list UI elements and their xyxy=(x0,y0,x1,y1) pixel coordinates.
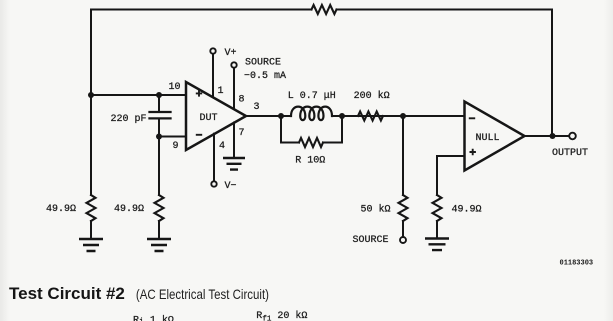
wire right vertical drop to output node xyxy=(551,10,553,137)
terminal V- xyxy=(211,181,216,186)
resistor RF (feedback, top rail) xyxy=(312,5,337,14)
svg-text:4: 4 xyxy=(219,141,225,152)
ground (left, under R1) xyxy=(79,239,103,251)
svg-text:01183303: 01183303 xyxy=(560,260,594,268)
wire R6 to ground xyxy=(436,221,438,238)
wire pin 7 to ground xyxy=(233,123,235,158)
terminal V+ xyxy=(210,48,215,53)
terminal OUTPUT xyxy=(569,133,576,140)
svg-text:49.9Ω: 49.9Ω xyxy=(452,205,482,216)
svg-text:DUT: DUT xyxy=(200,113,218,124)
svg-text:V+: V+ xyxy=(225,48,237,59)
wire pin 1 to V+ terminal xyxy=(212,54,214,98)
resistor R1 49.9 ohm (left) xyxy=(87,195,96,221)
wire 50k tap down xyxy=(402,116,404,195)
label DUT - symbol xyxy=(196,134,202,136)
wire L1 right to node xyxy=(332,115,465,117)
svg-text:49.9Ω: 49.9Ω xyxy=(114,204,144,215)
terminal SOURCE (bottom) xyxy=(400,237,406,243)
svg-text:−0.5 mA: −0.5 mA xyxy=(244,71,286,82)
svg-text:OUTPUT: OUTPUT xyxy=(552,148,588,159)
svg-text:V−: V− xyxy=(225,181,237,192)
resistor R3 10 ohm xyxy=(299,138,323,147)
resistor R6 49.9 ohm (right) xyxy=(433,195,442,221)
svg-text:L 0.7 μH: L 0.7 μH xyxy=(288,91,336,102)
svg-text:(AC Electrical Test Circuit): (AC Electrical Test Circuit) xyxy=(136,286,269,302)
node junction dot (+ wire / left drop) xyxy=(88,92,94,98)
wire DUT output pin 3 xyxy=(246,115,291,117)
svg-text:200 kΩ: 200 kΩ xyxy=(354,90,390,102)
svg-text:3: 3 xyxy=(254,102,260,113)
op-amp U1 DUT triangle xyxy=(186,82,246,150)
label NULL + symbol xyxy=(470,149,476,155)
wire R10 parallel branch left xyxy=(281,116,299,143)
capacitor C1 220 pF plates xyxy=(150,112,171,118)
svg-text:Test Circuit #2: Test Circuit #2 xyxy=(9,284,125,303)
ground (DUT pin 7) xyxy=(223,158,245,170)
svg-text:10: 10 xyxy=(169,82,181,93)
wire pin 4 to V- terminal xyxy=(213,134,215,182)
svg-text:8: 8 xyxy=(239,95,245,106)
wire NULL output xyxy=(525,135,570,137)
wire pin 8 to SOURCE terminal xyxy=(233,68,235,110)
terminal SOURCE (top) xyxy=(231,62,236,67)
svg-text:7: 7 xyxy=(239,128,245,139)
resistor R5 50 kohm xyxy=(399,195,408,221)
svg-text:R 10Ω: R 10Ω xyxy=(295,156,325,167)
inductor L1 0.7 uH xyxy=(291,107,332,121)
node junction dot (L right) xyxy=(339,113,345,119)
svg-text:SOURCE: SOURCE xyxy=(245,58,281,69)
node junction dot (50k tap) xyxy=(400,113,406,119)
svg-text:49.9Ω: 49.9Ω xyxy=(46,204,76,215)
ground (under R6) xyxy=(425,239,449,251)
wire inverting input (-) horizontal xyxy=(159,136,186,138)
svg-text:50 kΩ: 50 kΩ xyxy=(361,204,391,216)
node junction dot (cap bottom tee) xyxy=(156,134,162,140)
op-amp U2 NULL triangle xyxy=(465,102,525,171)
right page edge shade xyxy=(604,0,613,321)
ground (under R2) xyxy=(147,239,171,251)
svg-text:1: 1 xyxy=(218,86,224,97)
svg-text:220 pF: 220 pF xyxy=(111,114,147,125)
left page edge shade xyxy=(0,0,10,321)
wire R10 parallel branch right xyxy=(323,116,342,143)
svg-text:9: 9 xyxy=(173,141,179,152)
svg-text:SOURCE: SOURCE xyxy=(353,235,389,246)
wire top feedback rail right segment xyxy=(337,9,553,11)
resistor R2 49.9 ohm (second) xyxy=(155,195,164,221)
node junction dot (output) xyxy=(550,133,556,139)
wire NULL + input branch xyxy=(437,156,465,195)
resistor R4 200 kohm xyxy=(358,112,383,121)
wire noninverting input (+) horizontal xyxy=(91,94,186,96)
node junction dot (cap top tee) xyxy=(156,92,162,98)
label DUT + symbol xyxy=(196,90,202,96)
wire left vertical drop xyxy=(90,10,92,196)
wire capacitor bottom branch down to resistor xyxy=(158,119,160,195)
svg-text:NULL: NULL xyxy=(476,133,500,144)
wire top feedback rail left segment xyxy=(91,9,312,11)
wire R2 to ground xyxy=(158,221,160,238)
wire capacitor top branch xyxy=(158,95,160,111)
wire R5 to SOURCE terminal xyxy=(402,221,404,237)
label NULL - symbol xyxy=(469,117,475,119)
wire R1 to ground xyxy=(90,221,92,238)
node junction dot (L left) xyxy=(278,113,284,119)
